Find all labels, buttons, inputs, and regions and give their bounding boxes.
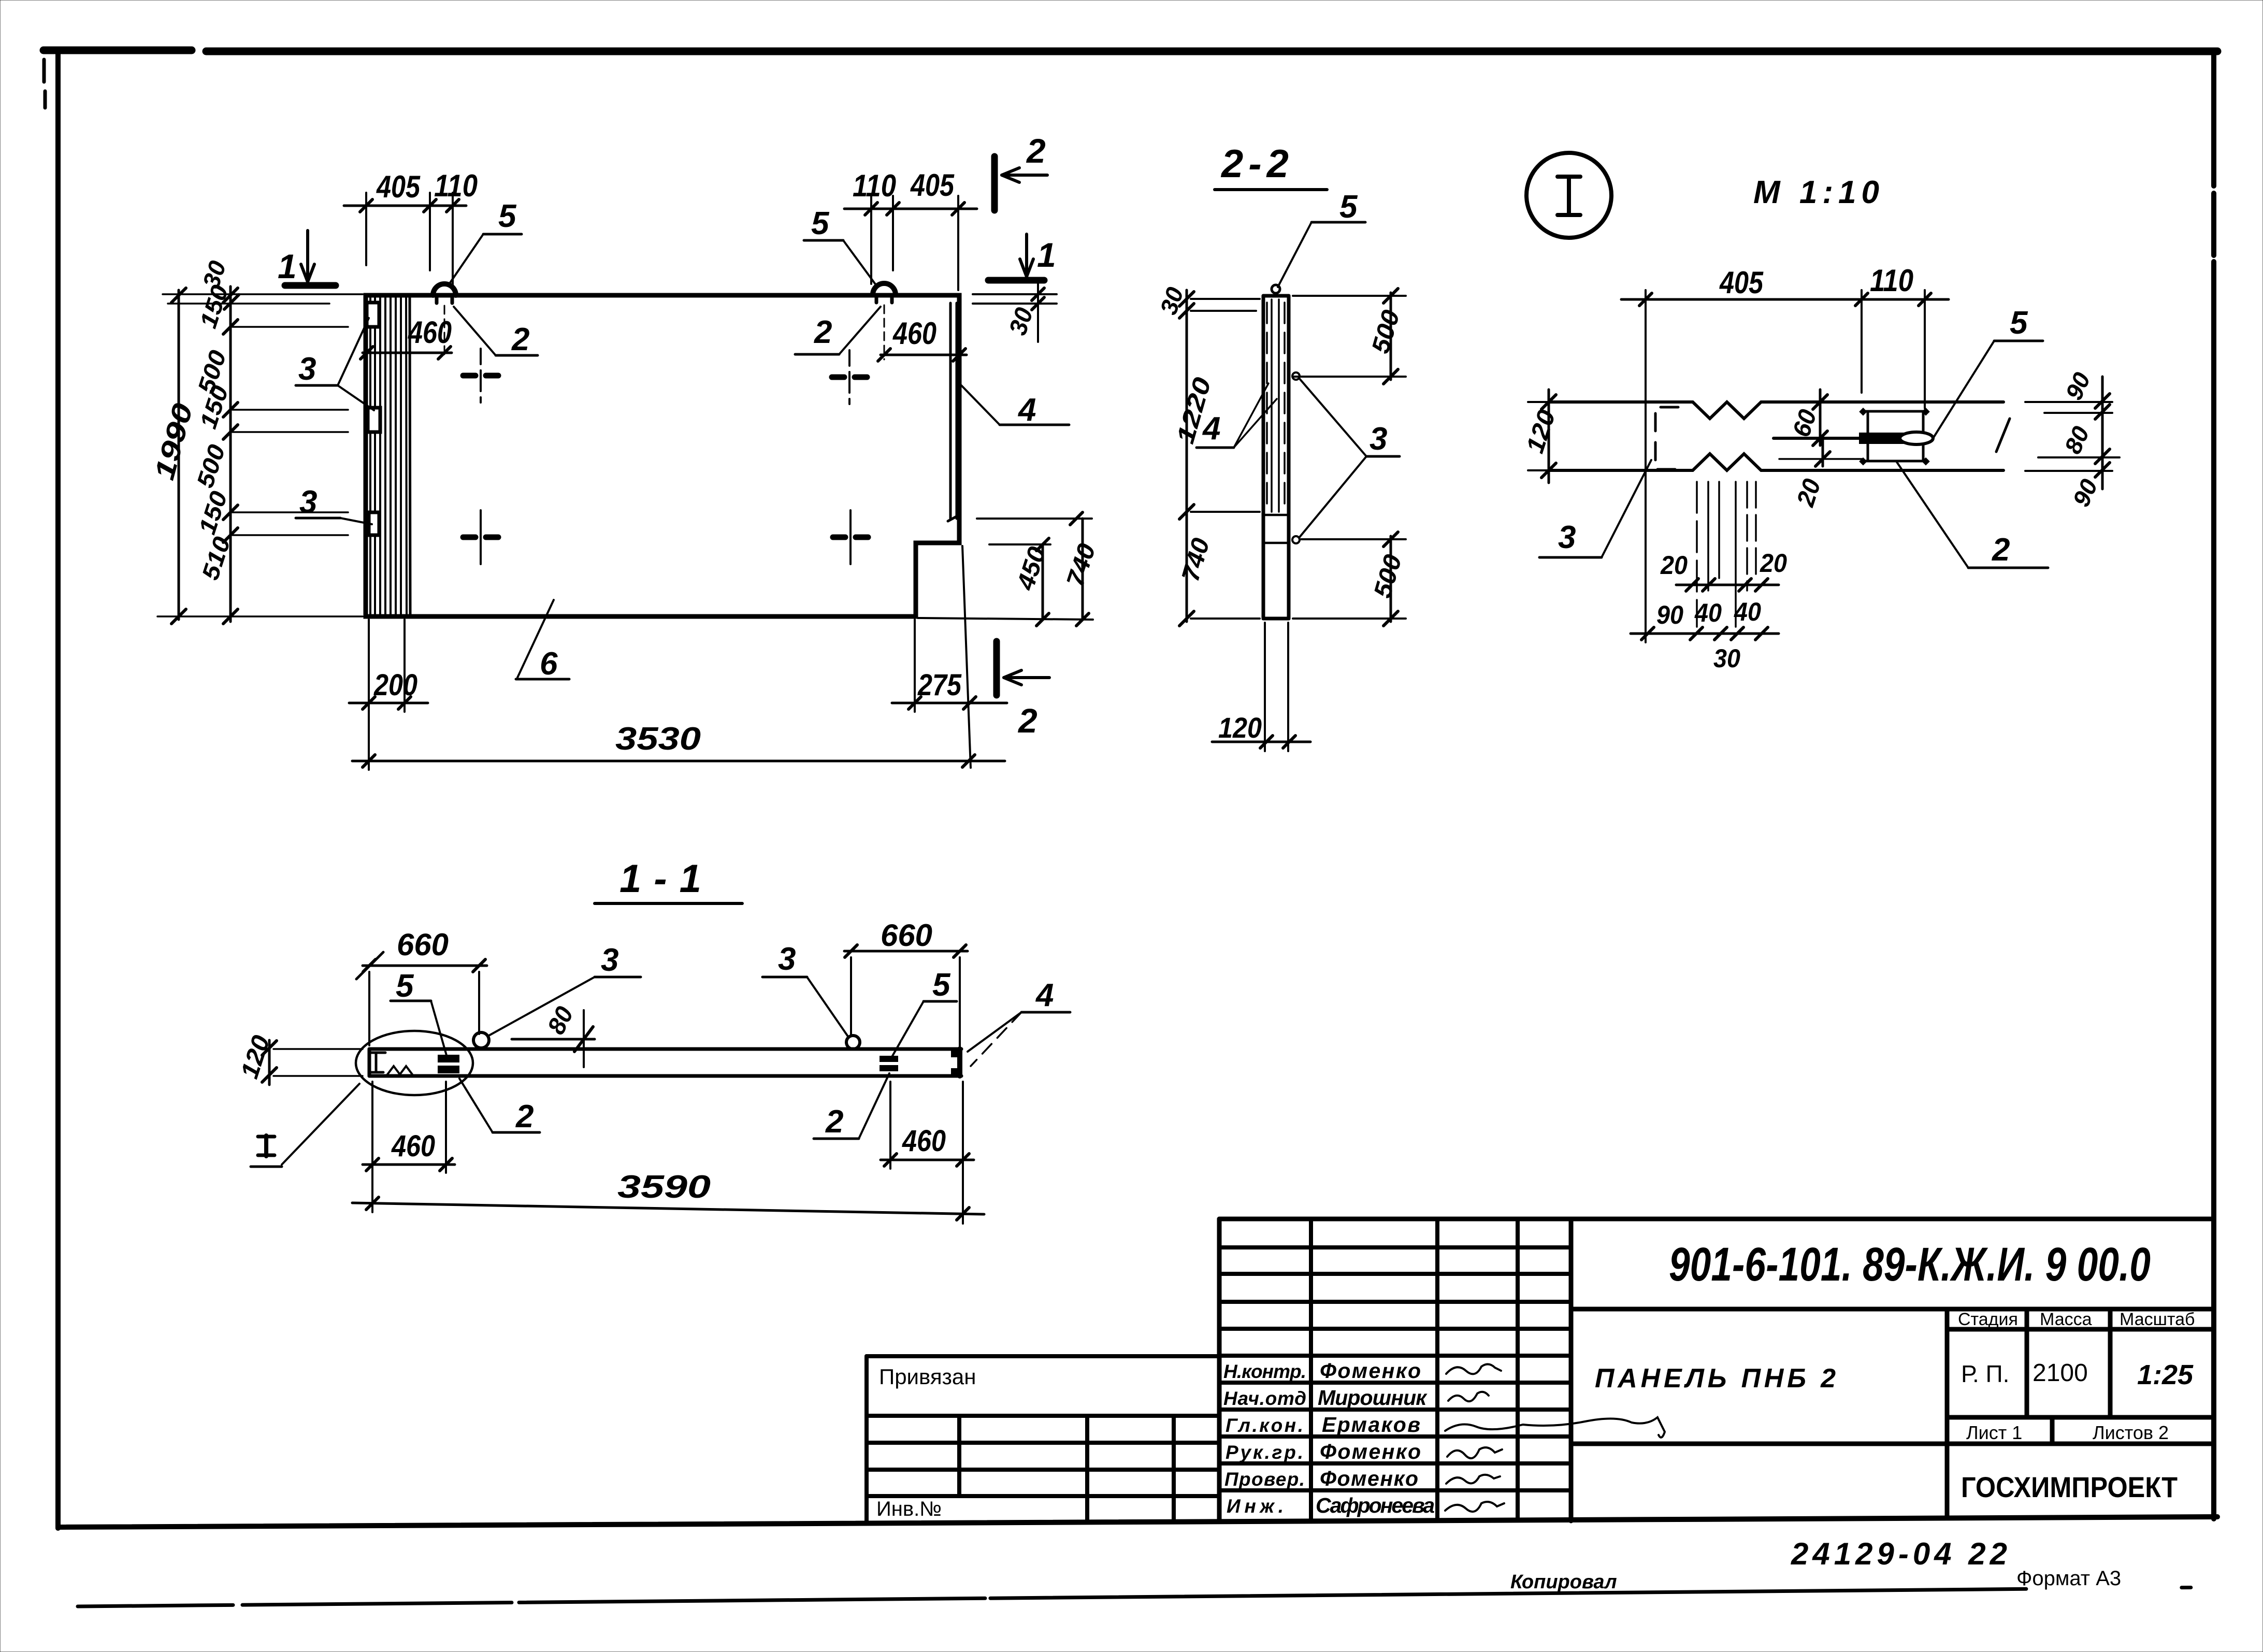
section 2-2 panel bar: [1263, 296, 1289, 619]
svg-text:275: 275: [917, 668, 962, 702]
svg-text:Провер.: Провер.: [1224, 1469, 1305, 1490]
svg-text:Мирошник: Мирошник: [1318, 1386, 1428, 1410]
svg-text:20: 20: [1760, 549, 1787, 578]
svg-text:40: 40: [1694, 598, 1722, 627]
svg-text:М 1:10: М 1:10: [1753, 175, 1884, 210]
label 2 right loop: [795, 307, 881, 354]
detail bar left end / 120 dim line: [1528, 390, 1575, 483]
embed plate 3 (lower): [369, 512, 379, 535]
dim 405/110 top-left: [344, 193, 466, 285]
svg-text:120: 120: [1218, 711, 1262, 744]
svg-text:60: 60: [1788, 406, 1822, 440]
label 5 left: [391, 968, 448, 1059]
label 5 left loop: [449, 198, 522, 285]
detail mark circle I: [1526, 153, 1611, 238]
dim 3590 overall: [352, 1169, 984, 1224]
svg-text:110: 110: [434, 168, 478, 203]
dim line left 30/1220/740: [1179, 290, 1260, 626]
svg-text:5: 5: [396, 968, 414, 1004]
label 6 panel face: [516, 600, 569, 682]
dim column segments left: [223, 286, 239, 624]
label 4 right plate: [961, 385, 1069, 428]
dim 60 middle: [1813, 390, 1827, 446]
svg-text:Копировал: Копировал: [1510, 1571, 1617, 1593]
embed plate 3 (middle): [368, 408, 380, 432]
edge plate item 4 on right edge: [948, 303, 959, 521]
sheet frame top border: [44, 50, 2217, 51]
svg-text:Формат А3: Формат А3: [2016, 1567, 2121, 1590]
signature table columns: [1311, 1219, 1518, 1519]
label 2 detail: [1897, 462, 2048, 568]
bar end cap marks right: [951, 1051, 959, 1057]
svg-text:20: 20: [1660, 551, 1688, 580]
svg-text:Н.контр.: Н.контр.: [1223, 1361, 1306, 1382]
embedded channel item 3 (dashed): [1655, 407, 1678, 469]
lower trim line: [78, 1587, 2217, 1606]
svg-text:2: 2: [1992, 532, 2010, 568]
label 5 detail: [1933, 305, 2043, 438]
section mark 1 top-left: [278, 231, 336, 285]
lifting loop right (item 5): [873, 283, 896, 360]
svg-text:460: 460: [408, 315, 452, 350]
svg-text:2100: 2100: [2033, 1359, 2088, 1387]
svg-text:3: 3: [601, 942, 618, 978]
dim column 1990 far left: [171, 288, 186, 624]
svg-text:3: 3: [1370, 421, 1387, 457]
svg-text:Р. П.: Р. П.: [1961, 1360, 2009, 1387]
svg-text:2-2: 2-2: [1220, 142, 1294, 186]
svg-text:1-1: 1-1: [619, 857, 714, 901]
dim 460 under left loop: [361, 347, 452, 359]
label 4 section 2-2: [1197, 383, 1277, 448]
label 3 left: [488, 942, 641, 1036]
dims 90 40 40 30 below joint: [1631, 627, 1779, 640]
svg-text:2: 2: [515, 1099, 534, 1134]
svg-text:150: 150: [194, 281, 234, 331]
section 1-1 title underline: [595, 902, 742, 905]
dim 460 left: [363, 1082, 455, 1173]
svg-text:ПАНЕЛЬ ПНБ 2: ПАНЕЛЬ ПНБ 2: [1595, 1363, 1836, 1394]
loop cross-section circle right: [846, 1036, 860, 1049]
detail bar bottom edge with keyed joint: [1549, 454, 2003, 470]
title block outer and grid lines: [1219, 1219, 2214, 1521]
svg-text:24129-04 22: 24129-04 22: [1791, 1536, 2011, 1571]
bar left end bracket: [369, 1053, 385, 1072]
detail bar right break mark: [1996, 419, 2010, 452]
label 3 detail: [1539, 460, 1651, 557]
svg-text:2: 2: [1026, 132, 1046, 170]
svg-text:Фоменко: Фоменко: [1320, 1440, 1421, 1463]
dim 660 left: [356, 952, 487, 1045]
svg-text:660: 660: [881, 918, 932, 953]
section 2-2 title underline: [1215, 188, 1327, 191]
svg-text:2: 2: [511, 322, 529, 357]
svg-text:740: 740: [1177, 535, 1215, 585]
centering cross top-right: [832, 350, 867, 404]
svg-text:Инв.№: Инв.№: [876, 1498, 942, 1520]
svg-text:4: 4: [1035, 978, 1054, 1013]
hatch band at left edge of panel: [370, 296, 410, 615]
connection pocket rectangle: [1859, 408, 1930, 466]
svg-text:90: 90: [2067, 475, 2103, 511]
dim 660 right: [844, 945, 968, 1046]
sheet frame right border: [2211, 51, 2216, 1519]
centering cross bottom-right: [833, 510, 868, 564]
section 2-2 joint lines: [1263, 514, 1289, 516]
embed plate 3 (upper): [367, 303, 379, 327]
svg-text:Инж.: Инж.: [1227, 1496, 1284, 1517]
label 2 left: [459, 1079, 540, 1134]
svg-text:500: 500: [1369, 551, 1407, 601]
svg-text:Фоменко: Фоменко: [1320, 1359, 1421, 1383]
svg-text:1:25: 1:25: [2137, 1359, 2194, 1390]
svg-text:3: 3: [1558, 520, 1576, 555]
svg-text:80: 80: [542, 1002, 579, 1039]
dim 740 right: [918, 512, 1093, 626]
dims 20 20 below joint: [1676, 579, 1779, 591]
anchor rod left (cross-section): [438, 1055, 459, 1073]
dim 80: [512, 1010, 595, 1067]
keyed joint extension lines below: [1697, 482, 1756, 627]
label 3 upper with leaders: [296, 318, 374, 410]
svg-text:740: 740: [1061, 540, 1101, 591]
dim 30 right of top edge: [973, 279, 1057, 342]
handwritten signatures: [1445, 1364, 1665, 1512]
svg-text:80: 80: [2059, 422, 2095, 458]
dim 500 lower right: [1293, 532, 1406, 626]
label 3 section 2-2: [1292, 372, 1400, 543]
svg-text:500: 500: [1367, 307, 1405, 356]
svg-text:4: 4: [1017, 392, 1036, 428]
dim 20 middle: [1779, 438, 1863, 466]
detail bar top edge with keyed joint: [1549, 402, 2003, 419]
svg-text:Листов 2: Листов 2: [2093, 1422, 2169, 1443]
sheet frame left border: [44, 49, 58, 1528]
section 1-1 bar: [369, 1049, 961, 1076]
svg-text:200: 200: [373, 668, 417, 702]
svg-text:120: 120: [1521, 407, 1561, 457]
label 3 lower with leader: [296, 484, 372, 524]
label 3 right: [762, 941, 848, 1037]
svg-text:405: 405: [376, 169, 421, 204]
signature table rows: [1219, 1247, 1571, 1490]
svg-text:3: 3: [298, 351, 316, 387]
svg-text:40: 40: [1734, 597, 1761, 626]
svg-text:Лист 1: Лист 1: [1966, 1422, 2022, 1443]
label 5 section 2-2: [1278, 189, 1365, 287]
svg-text:90: 90: [1656, 600, 1683, 629]
svg-text:Сафронеева: Сафронеева: [1316, 1493, 1435, 1517]
centering cross top-left: [463, 349, 498, 403]
svg-text:6: 6: [540, 646, 558, 682]
detail reference mark I with leader: [251, 1084, 359, 1167]
svg-text:2: 2: [825, 1104, 843, 1140]
svg-text:Ермаков: Ермаков: [1322, 1413, 1420, 1436]
centering cross bottom-left: [463, 510, 498, 564]
svg-text:2: 2: [1017, 701, 1037, 740]
svg-text:405: 405: [1719, 265, 1764, 300]
svg-text:1990: 1990: [149, 400, 199, 483]
svg-text:Нач.отд: Нач.отд: [1223, 1388, 1306, 1409]
dim 275 bottom-right: [892, 546, 1007, 768]
label 5 right loop: [804, 206, 877, 287]
signature rows labels: [1223, 1361, 1306, 1517]
svg-text:3590: 3590: [617, 1169, 711, 1205]
dim 3530 overall bottom: [352, 712, 1005, 770]
section mark 2 bottom-right: [997, 641, 1049, 740]
svg-text:Гл.кон.: Гл.кон.: [1226, 1415, 1303, 1436]
svg-text:660: 660: [397, 927, 449, 962]
dim 120 bottom section 2-2: [1212, 623, 1310, 751]
svg-text:500: 500: [191, 441, 230, 491]
dim 450 right of notch: [989, 538, 1050, 626]
svg-text:1: 1: [1037, 236, 1056, 274]
svg-text:5: 5: [1339, 189, 1358, 225]
svg-text:5: 5: [498, 198, 517, 234]
svg-text:110: 110: [1870, 263, 1913, 298]
loop cross-section circle left: [473, 1032, 489, 1048]
svg-text:5: 5: [811, 206, 830, 241]
section mark 2 top-right: [994, 132, 1047, 210]
svg-text:450: 450: [1012, 543, 1051, 594]
svg-text:Привязан: Привязан: [879, 1364, 976, 1389]
section 2-2 inner channel lines: [1267, 299, 1285, 512]
svg-text:5: 5: [932, 967, 951, 1003]
svg-text:1: 1: [278, 247, 297, 285]
svg-text:Стадия: Стадия: [1958, 1310, 2018, 1329]
svg-text:5: 5: [2010, 305, 2028, 341]
section mark 1 top-right: [988, 234, 1056, 280]
detail boundary oval: [356, 1031, 473, 1095]
svg-text:110: 110: [853, 168, 896, 203]
svg-text:460: 460: [892, 316, 936, 351]
dim 460 under right loop: [878, 349, 967, 361]
section 2-2 loop tip: [1272, 285, 1280, 293]
label 5 right: [892, 967, 957, 1057]
left attachment box Привязан: [867, 1356, 1219, 1521]
svg-text:3530: 3530: [615, 721, 701, 757]
svg-text:2: 2: [814, 314, 832, 350]
dim 120 left of bar: [262, 1040, 363, 1085]
svg-text:3: 3: [299, 484, 317, 520]
panel outline with bottom-right notch: [366, 295, 959, 616]
dim 200 bottom-left: [349, 620, 428, 712]
svg-text:90: 90: [2060, 368, 2096, 404]
svg-text:901-6-101. 89-К.Ж.И. 9 00.0: 901-6-101. 89-К.Ж.И. 9 00.0: [1669, 1238, 2151, 1291]
svg-text:Рук.гр.: Рук.гр.: [1226, 1442, 1303, 1463]
svg-text:30: 30: [1713, 644, 1740, 673]
svg-text:ГОСХИМПРОЕКТ: ГОСХИМПРОЕКТ: [1961, 1471, 2178, 1503]
label 2 right: [814, 1073, 889, 1140]
inner zigzag left end: [387, 1066, 412, 1074]
svg-text:Фоменко: Фоменко: [1320, 1467, 1418, 1490]
anchor rod right (cross-section): [880, 1056, 898, 1071]
svg-text:460: 460: [902, 1124, 946, 1158]
svg-text:20: 20: [1792, 476, 1826, 510]
dim 405 / 110 top of detail: [1621, 290, 1949, 642]
svg-text:Масштаб: Масштаб: [2120, 1310, 2195, 1329]
left extension lines: [157, 294, 363, 616]
svg-text:150: 150: [193, 487, 233, 537]
dim 500 upper right: [1293, 289, 1406, 384]
dim 460 right: [881, 1082, 974, 1169]
right dims 90/80/90 of detail: [2025, 377, 2120, 489]
dim 110/405 top-right: [844, 196, 977, 290]
svg-text:3: 3: [778, 941, 796, 977]
sheet frame bottom border: [58, 1517, 2217, 1527]
svg-text:460: 460: [391, 1129, 435, 1163]
svg-text:4: 4: [1202, 411, 1220, 447]
label 4 right end: [968, 978, 1070, 1066]
lifting loop left (item 5): [433, 284, 456, 358]
label 2 left loop: [454, 307, 538, 357]
anchor rod item 5 (solid) with eye: [1774, 432, 1933, 444]
signature rows names: [1316, 1359, 1435, 1517]
svg-text:Масса: Масса: [2040, 1310, 2092, 1329]
svg-text:405: 405: [910, 168, 955, 203]
